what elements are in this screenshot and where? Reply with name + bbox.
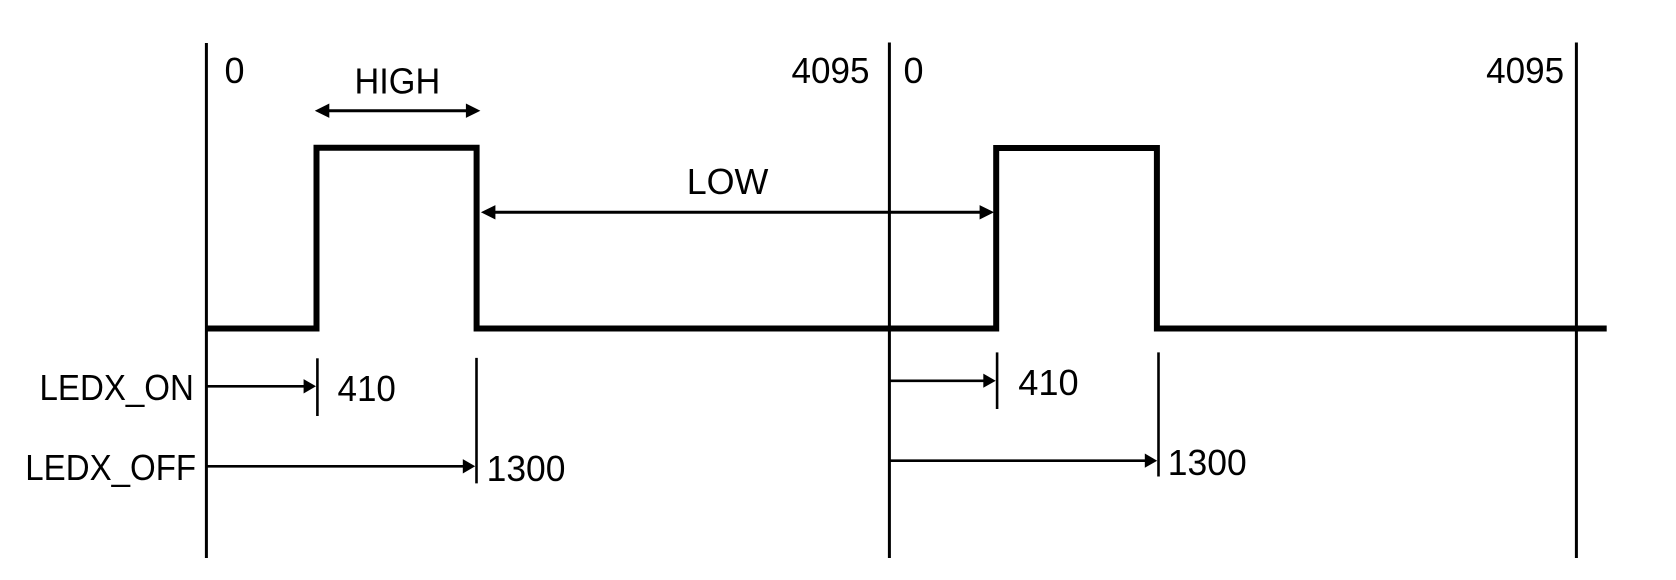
svg-text:410: 410 — [1018, 362, 1078, 403]
svg-text:LEDX_OFF: LEDX_OFF — [25, 447, 196, 488]
svg-text:0: 0 — [225, 50, 245, 91]
svg-text:LOW: LOW — [687, 161, 769, 202]
svg-text:1300: 1300 — [1168, 442, 1247, 483]
svg-text:0: 0 — [904, 50, 924, 91]
svg-text:LEDX_ON: LEDX_ON — [40, 367, 194, 408]
svg-text:410: 410 — [338, 368, 396, 409]
svg-text:1300: 1300 — [487, 448, 566, 489]
svg-text:4095: 4095 — [792, 50, 870, 91]
svg-text:HIGH: HIGH — [355, 61, 441, 102]
svg-text:4095: 4095 — [1486, 50, 1564, 91]
